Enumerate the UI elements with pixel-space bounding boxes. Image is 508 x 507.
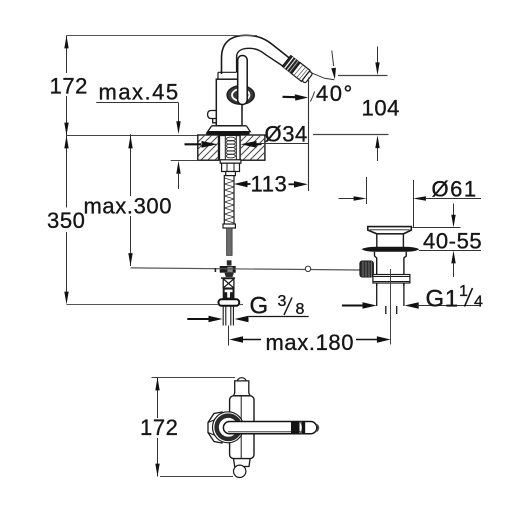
vertical reference [308, 78, 310, 192]
outlet height line [338, 75, 388, 77]
spacer ring [226, 172, 236, 176]
tee fitting [220, 260, 236, 278]
waste tailpipe [377, 283, 404, 314]
base flange [208, 126, 251, 132]
rubber washer band [362, 247, 420, 252]
dim 172 bottom [152, 378, 236, 477]
slab bottom extension [171, 160, 198, 162]
dim G1 1/4 [342, 302, 481, 309]
dim 350 [64, 136, 68, 305]
svg-text:Ø61: Ø61 [432, 177, 478, 202]
slab right block [234, 135, 274, 165]
body column [216, 79, 242, 126]
svg-text:Ø34: Ø34 [265, 122, 308, 147]
svg-text:113: 113 [251, 172, 288, 197]
svg-text:max.300: max.300 [84, 194, 173, 219]
dim G 3/8 [187, 316, 308, 323]
dim O61 [339, 177, 482, 228]
svg-text:104: 104 [362, 96, 401, 121]
350 reference line [67, 304, 219, 306]
body centre line [240, 396, 242, 458]
svg-text:G: G [250, 293, 269, 320]
sloped arrow [332, 51, 334, 67]
label G 3/8 [250, 293, 305, 320]
hex nut [222, 163, 240, 171]
dim 40-55 [412, 204, 481, 278]
rod tick [214, 268, 216, 272]
waste upper body [377, 234, 404, 250]
slab left block [192, 135, 228, 165]
faucet centreline ext [228, 326, 230, 346]
svg-text:G1: G1 [426, 286, 459, 313]
main body [230, 396, 254, 459]
escutcheon dark ring [217, 416, 240, 439]
top stub [234, 381, 251, 396]
lever handle [238, 56, 248, 105]
washer under slab [220, 160, 241, 163]
shank in hole [220, 136, 241, 161]
bottom circle [234, 465, 246, 477]
svg-text:172: 172 [50, 74, 89, 99]
linkage rod [131, 268, 360, 270]
svg-text:4: 4 [474, 294, 483, 311]
angle 40 deg [283, 51, 336, 192]
top circle [237, 378, 247, 388]
block with T [223, 288, 235, 299]
lever tip nub [317, 425, 319, 432]
dim 104 [375, 47, 379, 162]
svg-text:172: 172 [140, 415, 179, 440]
svg-text:max.180: max.180 [266, 330, 355, 355]
axis extension [311, 73, 335, 80]
escutcheon ring [227, 86, 254, 104]
label G1 1/4 [426, 283, 484, 313]
aerator knurl band [282, 55, 313, 84]
spout inner curve [237, 48, 284, 72]
threaded rod [223, 176, 235, 228]
threaded adapter [223, 279, 234, 289]
locknut [219, 299, 240, 306]
side view body [230, 378, 254, 478]
svg-text:1: 1 [459, 283, 468, 300]
pull rod [227, 228, 233, 255]
lever dark band [291, 422, 300, 434]
neck step [218, 72, 237, 79]
knurled adjuster [360, 261, 374, 277]
svg-text:350: 350 [47, 208, 86, 233]
wall hex nut [208, 412, 222, 443]
thread band [373, 275, 410, 284]
dim O34 [185, 141, 309, 148]
svg-text:40°: 40° [316, 81, 354, 106]
aerator end cap [302, 71, 313, 83]
side lever [223, 422, 318, 434]
bottom stub [234, 459, 251, 467]
aerator sleeve [292, 63, 310, 82]
rod ball [305, 266, 310, 271]
svg-text:3: 3 [278, 293, 287, 310]
dim max.45 [96, 103, 181, 190]
top reference line [67, 35, 258, 37]
horizontal arrow [283, 96, 297, 99]
waste centreline [390, 269, 392, 345]
spout outer curve [222, 35, 290, 74]
surface right line [313, 134, 389, 136]
svg-text:8: 8 [296, 301, 305, 318]
dim max.180 [229, 336, 390, 343]
dim max.300 [128, 134, 132, 266]
escutcheon back circle [213, 412, 244, 443]
dim 113 [234, 181, 308, 188]
svg-text:max.45: max.45 [99, 80, 180, 105]
arc segment [310, 92, 314, 102]
waste flange [368, 227, 412, 234]
dim 172 line [64, 36, 68, 136]
lever centre tick [241, 105, 243, 112]
supply pipes [223, 306, 233, 326]
svg-text:40-55: 40-55 [423, 229, 482, 254]
counter surface line [67, 135, 198, 137]
pop-up knob left [208, 111, 217, 123]
waste lower body [375, 252, 407, 286]
